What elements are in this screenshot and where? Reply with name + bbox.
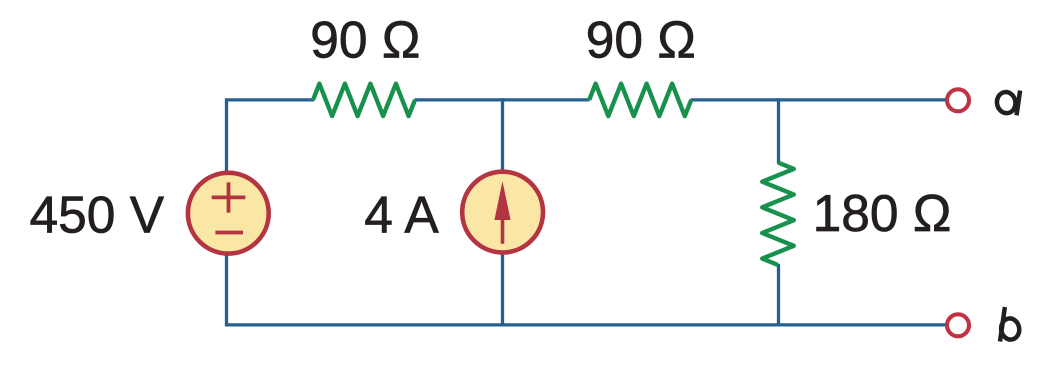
svg-text:90 Ω: 90 Ω xyxy=(586,11,696,69)
resistor R1 90 ohm zigzag xyxy=(313,84,415,116)
svg-text:450 V: 450 V xyxy=(30,186,165,244)
node a label xyxy=(995,91,1020,116)
wire top-left corner and left branch top xyxy=(227,100,315,173)
wire right branch top stub xyxy=(777,98,780,163)
voltage source plus sign xyxy=(212,182,246,212)
resistor R3 180 ohm vertical zigzag xyxy=(762,163,794,266)
current source arrow xyxy=(494,181,510,244)
wire bottom rail xyxy=(225,323,946,326)
wire top middle (between 90-ohm resistors) xyxy=(415,98,590,101)
terminal a ring xyxy=(947,89,969,111)
svg-text:180 Ω: 180 Ω xyxy=(813,184,952,242)
wire right branch bottom stub xyxy=(777,264,780,325)
wire current source top stub xyxy=(501,98,504,173)
wire top right rail to terminal a xyxy=(691,98,946,101)
voltage source V1 450V circle xyxy=(188,173,269,254)
svg-text:90 Ω: 90 Ω xyxy=(310,11,420,69)
voltage source minus sign xyxy=(215,231,243,235)
resistor R2 90 ohm zigzag xyxy=(589,84,691,116)
node b label xyxy=(999,307,1020,342)
terminal b ring xyxy=(947,314,969,336)
svg-text:4 A: 4 A xyxy=(364,186,439,244)
wire left branch bottom xyxy=(225,252,228,325)
current source I1 4A circle xyxy=(462,172,543,253)
wire current source bottom stub xyxy=(501,252,504,325)
